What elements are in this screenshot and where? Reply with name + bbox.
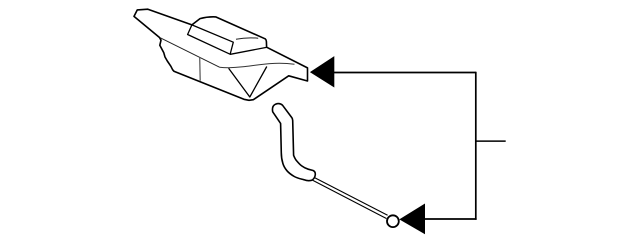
lock body box front face edges [192,25,233,54]
shelf wavy line [220,63,295,67]
bottom callout line [425,218,477,220]
release cable conduit tube [272,104,315,181]
top callout line [334,72,476,74]
hood lock assembly body outline [134,9,308,100]
box top face detail line [236,38,258,39]
short vertical detail line [199,57,202,81]
cable end ball fitting [387,215,399,227]
interior diagonal line [160,38,219,67]
cable wire double line [311,177,387,219]
top callout arrowhead [310,56,334,87]
lock body box base edges [188,25,267,54]
bracket middle tick [476,140,506,142]
V-shaped latch detail [229,67,267,98]
bottom callout arrowhead [399,204,425,235]
callout bracket vertical line [475,72,477,220]
